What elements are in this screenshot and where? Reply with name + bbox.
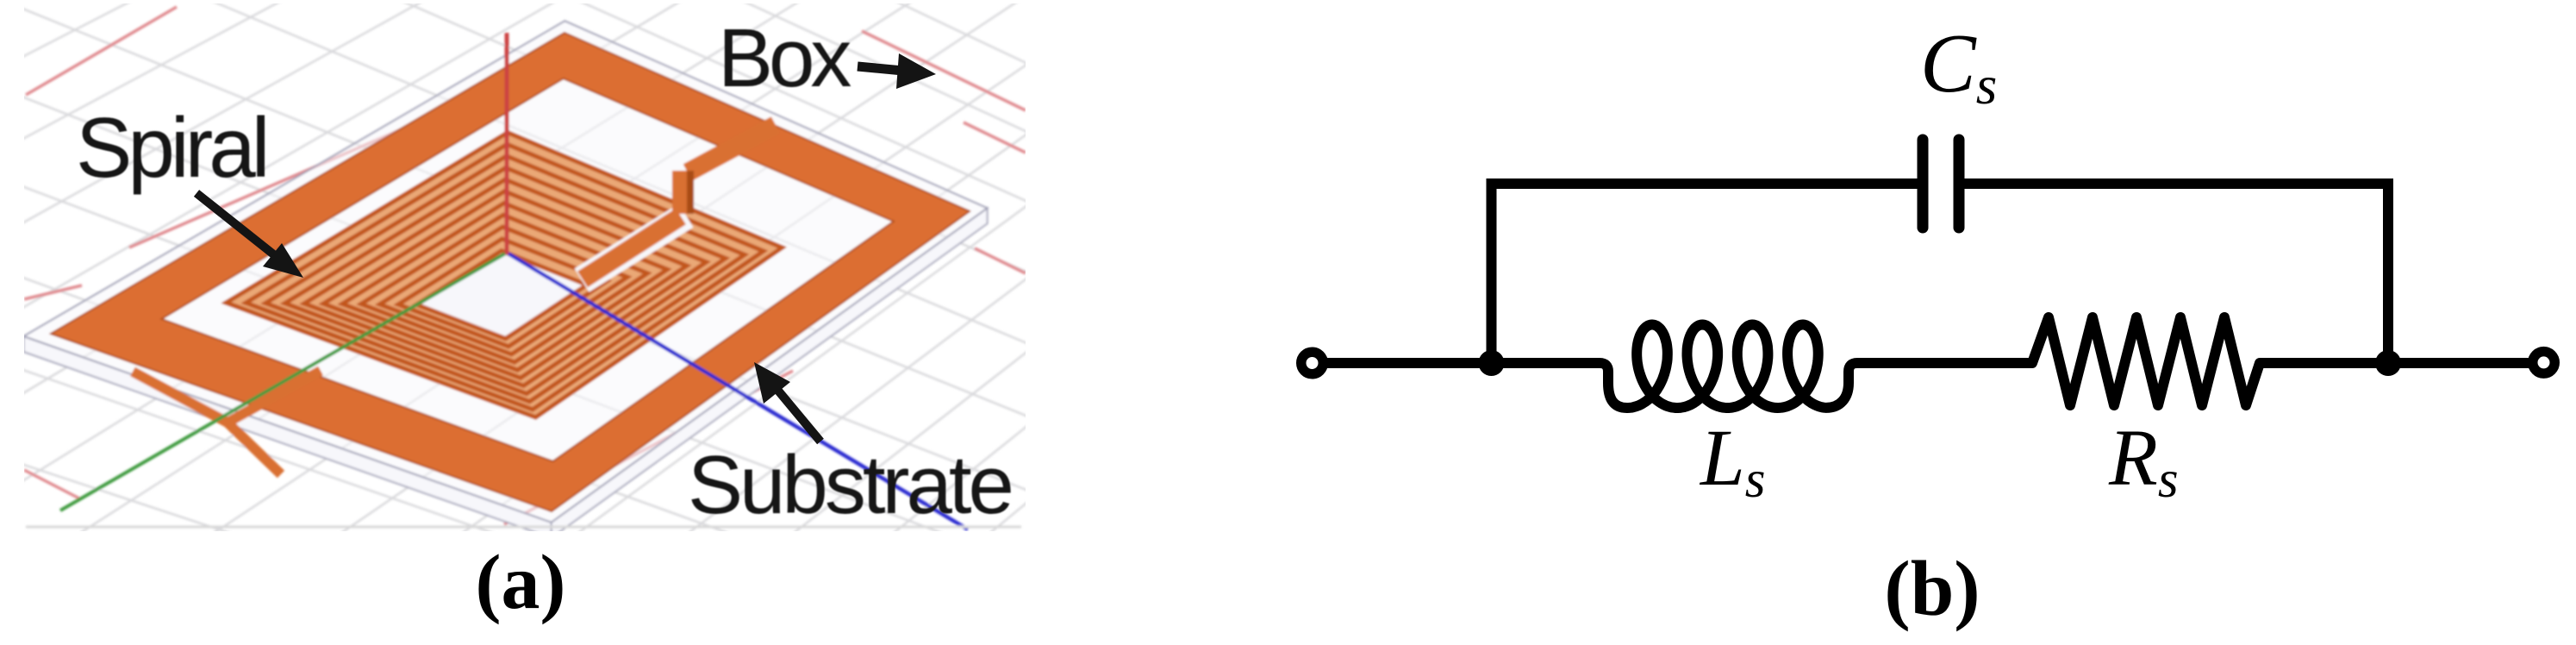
svg-text:Cs: Cs <box>1920 17 1997 116</box>
svg-text:Rs: Rs <box>2108 414 2179 509</box>
svg-text:Box: Box <box>718 12 851 104</box>
svg-text:(b): (b) <box>1884 545 1980 632</box>
svg-text:(a): (a) <box>476 540 566 625</box>
svg-text:Substrate: Substrate <box>688 439 1012 531</box>
svg-text:Ls: Ls <box>1699 414 1765 509</box>
svg-text:Spiral: Spiral <box>76 100 266 195</box>
